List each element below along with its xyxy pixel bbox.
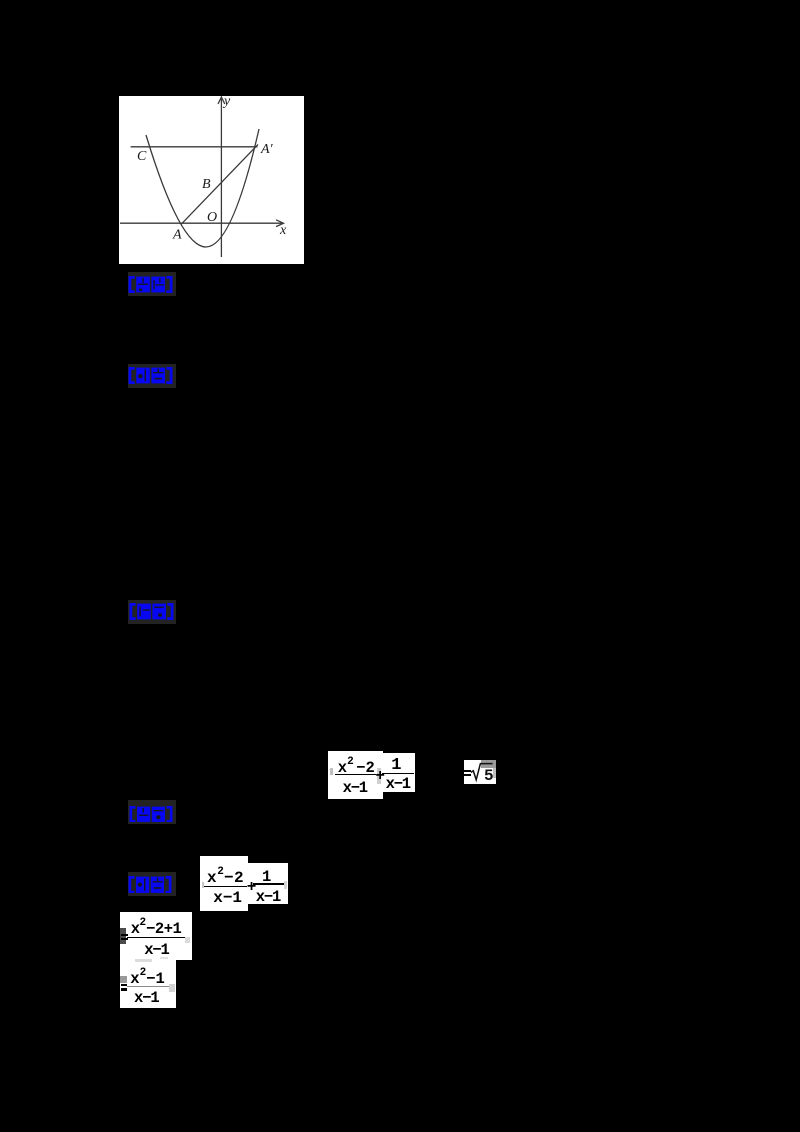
formula 2: = sqrt(5) xyxy=(464,760,496,784)
svg-text:C: C xyxy=(137,149,147,164)
svg-text:O: O xyxy=(207,210,217,225)
parabola xyxy=(146,129,259,247)
line A-A' xyxy=(181,145,258,225)
blue tag 1 [analysis] xyxy=(128,272,177,295)
blue tag 4 [answer] xyxy=(128,800,176,824)
svg-text:x: x xyxy=(279,223,287,238)
formula 4: = (x^2-2+1)/(x-1) xyxy=(120,912,193,961)
formula 3: (x^2-2)/(x-1) + 1/(x-1) xyxy=(200,856,248,912)
formula 5: = (x^2-1)/(x-1) xyxy=(120,957,177,1008)
x axis xyxy=(120,222,282,224)
chord line C-A' xyxy=(131,146,258,148)
svg-text:y: y xyxy=(222,96,231,109)
svg-text:A′: A′ xyxy=(260,142,274,157)
svg-text:5: 5 xyxy=(484,767,494,784)
svg-text:B: B xyxy=(202,177,211,192)
blue tag 5 [explain] xyxy=(128,872,176,896)
formula 1: (x^2-2)/(x-1) + 1/(x-1) xyxy=(328,751,384,799)
y axis xyxy=(220,99,222,257)
figure: parabola graph image xyxy=(119,96,304,264)
blue tag 3 [comment] xyxy=(128,600,176,625)
svg-text:A: A xyxy=(172,228,182,243)
blue tag 2 [answer-steps] xyxy=(128,364,177,388)
